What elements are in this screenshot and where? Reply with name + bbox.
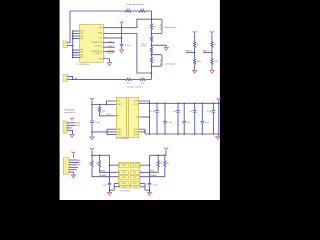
svg-text:1k: 1k	[197, 44, 199, 46]
svg-text:PB3: PB3	[80, 38, 83, 40]
svg-text:SW: SW	[75, 78, 78, 80]
svg-text:BPHASE: BPHASE	[150, 174, 158, 177]
svg-text:Right bumper: Right bumper	[165, 26, 177, 29]
svg-text:VRC1: VRC1	[107, 114, 112, 116]
svg-text:to bumper switches: to bumper switches	[127, 3, 145, 6]
svg-text:PH2: PH2	[133, 177, 136, 179]
svg-text:0.1 µF: 0.1 µF	[167, 122, 173, 124]
svg-text:4.7k: 4.7k	[127, 83, 130, 85]
svg-text:PUSHBUTTON: PUSHBUTTON	[91, 42, 103, 44]
svg-text:PB1: PB1	[80, 33, 83, 35]
svg-text:PB2: PB2	[80, 36, 83, 38]
svg-text:PWM_L: PWM_L	[108, 41, 114, 43]
svg-text:SLP: SLP	[122, 172, 125, 174]
svg-text:GND2: GND2	[117, 131, 121, 133]
svg-text:GND1: GND1	[117, 129, 121, 131]
svg-text:PH1: PH1	[122, 177, 125, 179]
svg-text:4.7k: 4.7k	[140, 8, 143, 10]
svg-text:SDA/RX: SDA/RX	[108, 49, 115, 52]
svg-text:U3 DRV8838: U3 DRV8838	[120, 190, 130, 192]
svg-text:OUT2: OUT2	[134, 187, 138, 189]
svg-text:U2 TPS2113APW: U2 TPS2113APW	[116, 137, 130, 140]
svg-text:10k: 10k	[96, 163, 99, 165]
svg-text:0.1 µF: 0.1 µF	[125, 45, 131, 47]
svg-text:MODE: MODE	[122, 165, 127, 167]
svg-text:GND5: GND5	[134, 131, 138, 133]
svg-text:SCL: SCL	[99, 38, 102, 40]
svg-text:AENBL: AENBL	[100, 170, 106, 173]
svg-text:SCL/TX: SCL/TX	[108, 53, 115, 55]
svg-text:PWM_R: PWM_R	[108, 46, 115, 48]
svg-text:4.7k: 4.7k	[126, 8, 129, 10]
svg-text:PB0: PB0	[80, 31, 83, 33]
svg-text:100k: 100k	[197, 61, 201, 63]
svg-text:APHASE: APHASE	[99, 174, 107, 177]
svg-text:Left bumper: Left bumper	[165, 63, 176, 66]
svg-text:VRC2: VRC2	[76, 125, 81, 127]
svg-text:bumper switches: bumper switches	[127, 85, 142, 88]
svg-text:100k: 100k	[214, 61, 218, 63]
svg-text:VSNS: VSNS	[98, 33, 102, 35]
svg-text:ST: ST	[136, 117, 138, 119]
svg-text:GND4: GND4	[134, 129, 138, 131]
svg-text:0.1 µF: 0.1 µF	[150, 111, 156, 113]
svg-text:MICROSYS_D: MICROSYS_D	[92, 51, 103, 53]
svg-text:VOUT: VOUT	[134, 101, 138, 103]
svg-text:VIN: VIN	[117, 101, 120, 103]
svg-text:BENBL: BENBL	[150, 171, 156, 173]
svg-text:GND2: GND2	[133, 183, 137, 185]
svg-text:1k: 1k	[214, 44, 216, 46]
svg-text:GND6: GND6	[134, 134, 138, 136]
svg-text:0.1 µF: 0.1 µF	[153, 185, 158, 187]
svg-text:10 µF: 10 µF	[95, 122, 101, 124]
svg-text:EN: EN	[117, 115, 119, 117]
svg-text:GND3: GND3	[117, 134, 121, 136]
svg-text:BMP_L: BMP_L	[203, 51, 209, 53]
svg-text:OUT1: OUT1	[123, 187, 127, 189]
svg-text:BMP_R: BMP_R	[185, 51, 192, 53]
svg-text:connector (x2): connector (x2)	[64, 111, 76, 114]
svg-text:resistors: resistors	[140, 45, 147, 48]
svg-text:MODE: MODE	[132, 165, 137, 167]
svg-text:COUNT_2: COUNT_2	[95, 53, 103, 55]
svg-text:GND1: GND1	[122, 183, 126, 185]
svg-text:1 µF: 1 µF	[103, 184, 106, 186]
svg-text:SCL/RCLK: SCL/RCLK	[94, 46, 103, 48]
svg-text:10k: 10k	[88, 163, 91, 165]
svg-text:2k: 2k	[154, 60, 156, 62]
svg-text:10k: 10k	[160, 163, 163, 165]
svg-text:VOUT: VOUT	[134, 104, 138, 106]
svg-text:SLP: SLP	[133, 172, 136, 174]
svg-text:100k: 100k	[102, 111, 106, 113]
svg-text:2k: 2k	[154, 26, 156, 28]
svg-text:IC1 MC9S08QG8: IC1 MC9S08QG8	[77, 64, 90, 66]
svg-text:4.7k: 4.7k	[141, 83, 144, 85]
svg-text:10k: 10k	[166, 163, 169, 165]
